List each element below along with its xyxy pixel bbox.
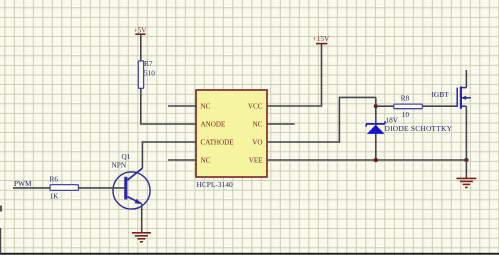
wire gate node to R8 <box>376 105 394 107</box>
svg-text:10: 10 <box>402 110 410 119</box>
svg-text:1K: 1K <box>50 192 60 201</box>
pin stub NC right <box>267 123 295 125</box>
resistor R7 <box>138 59 155 88</box>
svg-text:NC: NC <box>201 157 211 165</box>
ground left <box>132 233 151 242</box>
svg-text:+5V: +5V <box>134 27 148 35</box>
transistor Q1 <box>112 152 151 209</box>
svg-text:ANODE: ANODE <box>201 121 226 129</box>
svg-text:+15V: +15V <box>313 35 330 43</box>
wire R8 to IGBT gate <box>422 105 457 107</box>
svg-text:HCPL-3140: HCPL-3140 <box>197 180 233 189</box>
wire Q1 emitter to ground <box>141 204 143 233</box>
svg-text:NC: NC <box>253 121 263 129</box>
sheet border left <box>0 228 1 255</box>
power +15V <box>313 35 330 43</box>
svg-text:NPN: NPN <box>112 160 127 169</box>
transistor IGBT <box>457 86 471 108</box>
wire PWM to R6 <box>13 187 50 189</box>
resistor R6 <box>50 174 79 200</box>
sheet border left tick <box>0 206 2 212</box>
wire VEE to right ground <box>465 160 467 178</box>
svg-text:VO: VO <box>252 139 262 147</box>
svg-text:DIODE SCHOTTKY: DIODE SCHOTTKY <box>385 124 453 133</box>
wire VO to gate node <box>267 97 376 142</box>
resistor R8 <box>394 93 423 119</box>
wire R6 to Q1 base <box>79 187 126 189</box>
wire R7 to ANODE pin <box>141 88 196 124</box>
op-amp U1 HCPL-3140 body <box>196 90 267 177</box>
junction dot diode/VEE <box>374 158 378 162</box>
sheet border bottom <box>0 253 499 255</box>
wire gate node vertical (through diode) <box>375 97 377 160</box>
wire IGBT emitter down <box>465 106 467 160</box>
diode D1 schottky <box>366 121 385 134</box>
svg-text:R7: R7 <box>144 59 153 68</box>
svg-text:510: 510 <box>144 69 155 78</box>
wire VEE rail <box>267 159 466 161</box>
svg-text:R6: R6 <box>50 174 59 183</box>
svg-text:CATHODE: CATHODE <box>201 139 234 147</box>
svg-text:NC: NC <box>201 103 211 111</box>
power +5V <box>134 27 148 35</box>
pin stub NC left bottom <box>168 159 196 161</box>
junction dot IGBT emitter/VEE <box>464 158 468 162</box>
wire IGBT collector up <box>465 70 467 88</box>
svg-text:VCC: VCC <box>248 103 263 111</box>
junction dot gate node <box>374 104 378 108</box>
wire CATHODE to Q1 collector <box>142 142 196 168</box>
svg-text:PWM: PWM <box>14 179 32 188</box>
wire +5V to R7 <box>140 34 142 61</box>
wire +15V to VCC pin <box>267 44 322 106</box>
ground right <box>456 178 476 187</box>
svg-text:R8: R8 <box>401 93 410 102</box>
pin stub NC left top <box>168 105 196 107</box>
svg-text:IGBT: IGBT <box>432 90 450 99</box>
svg-text:VEE: VEE <box>249 157 263 165</box>
